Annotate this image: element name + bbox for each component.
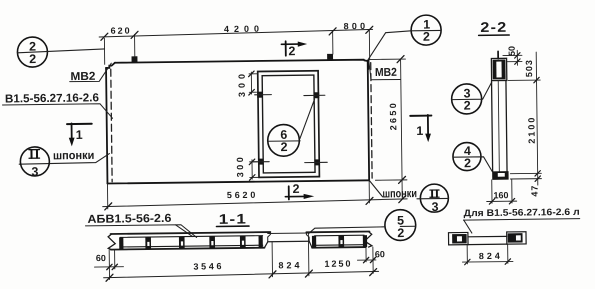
svg-text:шпонки: шпонки (382, 188, 417, 200)
svg-text:1250: 1250 (324, 259, 350, 269)
svg-text:1: 1 (76, 128, 83, 142)
svg-text:2: 2 (292, 182, 299, 196)
svg-text:2-2: 2-2 (480, 19, 507, 35)
svg-text:800: 800 (344, 21, 366, 31)
svg-text:620: 620 (111, 26, 130, 36)
svg-text:47: 47 (530, 186, 540, 197)
svg-text:5620: 5620 (227, 190, 256, 200)
svg-text:МВ2: МВ2 (375, 67, 397, 79)
svg-text:300: 300 (235, 157, 245, 177)
svg-text:3546: 3546 (193, 261, 221, 271)
svg-text:160: 160 (493, 190, 508, 200)
svg-text:1: 1 (416, 124, 423, 138)
svg-text:2: 2 (464, 99, 471, 113)
svg-text:2: 2 (464, 156, 471, 170)
svg-text:50: 50 (507, 46, 517, 56)
svg-text:1-1: 1-1 (219, 211, 248, 227)
svg-text:2: 2 (397, 226, 404, 240)
svg-text:Для В1.5-56.27.16-2.6 л: Для В1.5-56.27.16-2.6 л (464, 207, 580, 219)
svg-text:2: 2 (29, 52, 36, 66)
svg-text:2100: 2100 (526, 118, 536, 144)
svg-text:300: 300 (237, 74, 247, 97)
svg-text:503: 503 (524, 60, 534, 77)
svg-text:2: 2 (288, 44, 295, 58)
svg-text:60: 60 (375, 249, 385, 259)
svg-text:4200: 4200 (224, 24, 259, 34)
svg-text:3: 3 (31, 165, 38, 179)
svg-text:АБВ1.5-56-2.6: АБВ1.5-56-2.6 (87, 213, 171, 226)
svg-text:60: 60 (96, 253, 106, 263)
svg-text:3: 3 (431, 200, 438, 214)
svg-text:824: 824 (278, 260, 299, 270)
svg-text:2650: 2650 (388, 103, 398, 130)
svg-text:2: 2 (280, 140, 287, 154)
svg-text:шпонки: шпонки (53, 150, 95, 163)
svg-text:824: 824 (479, 251, 500, 261)
svg-text:2: 2 (423, 30, 430, 44)
